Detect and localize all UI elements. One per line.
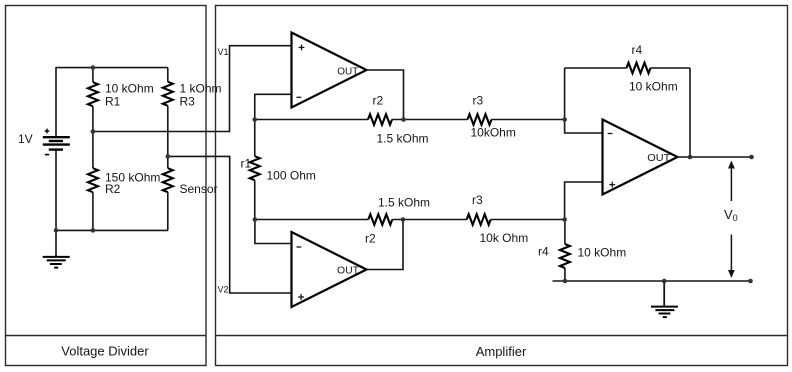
junction R2 bottom [91,228,96,233]
svg-text:r2: r2 [365,231,376,245]
ground (divider) [43,257,70,268]
wire node A vertical (r3 to U3 inverting) [565,68,603,133]
wire U2 inverting input [255,220,292,244]
wire top rail of divider [56,67,168,69]
svg-text:10 kOhm: 10 kOhm [578,245,627,259]
svg-text:Sensor: Sensor [180,182,218,196]
wire battery negative lead [55,150,57,231]
svg-text:10k Ohm: 10k Ohm [480,231,529,245]
wire R3 to Sensor [167,106,169,168]
svg-text:r4: r4 [538,244,549,258]
svg-text:r4: r4 [632,43,643,57]
wire ground rail [553,280,751,282]
wire U3 noninverting input to rail2 node [565,182,603,220]
svg-text:r3: r3 [472,193,483,207]
junction node A [562,117,567,122]
wire U3 output [678,156,752,158]
wire ground lead [55,230,57,257]
svg-text:OUT: OUT [337,67,358,78]
resistor Sensor [163,168,173,230]
wire U1 output to rail1 [367,70,404,120]
svg-text:10kOhm: 10kOhm [471,126,516,140]
wire U2 output to rail2 [367,220,404,270]
op-amp U3 (output) [603,120,678,195]
wire rail1 middle segment [392,119,468,121]
junction sensor node [166,154,171,159]
voltage divider box [6,6,207,366]
junction r4 bottom at ground rail [563,279,568,284]
wire bottom rail of divider [56,229,168,231]
wire battery positive lead [55,67,57,136]
svg-text:1.5 kOhm: 1.5 kOhm [378,195,430,209]
wire ground stub [663,281,665,306]
svg-text:Voltage Divider: Voltage Divider [61,344,149,359]
junction battery negative [54,228,59,233]
terminal ground rail end [748,279,753,284]
junction ground tap [662,279,667,284]
resistor r2 (bottom) [368,214,392,225]
svg-text:OUT: OUT [647,153,670,164]
svg-text:100 Ohm: 100 Ohm [267,169,316,183]
svg-text:10 kOhm: 10 kOhm [629,80,678,94]
wire node V1 (divider mid node to opamp U1 +) [93,46,292,132]
svg-text:Amplifier: Amplifier [476,344,527,359]
svg-text:r1: r1 [241,157,252,171]
wire U1 inverting input [255,94,292,119]
resistor r4 (to ground) [560,220,570,282]
svg-text:R1: R1 [105,95,121,109]
svg-text:r2: r2 [373,93,384,107]
junction node B [562,217,567,222]
battery minus mark [45,154,49,156]
wire node V2 (sensor node to opamp U2 +) [168,156,292,293]
annotation Vo arrow (up) [728,161,735,202]
svg-text:1 kOhm: 1 kOhm [180,81,222,95]
svg-text:OUT: OUT [337,265,359,276]
wire rail1 right segment [492,119,565,121]
resistor R2 [88,132,98,231]
resistor r2 (top) [368,114,392,125]
resistor R1 [88,68,98,132]
junction U1 output [401,117,406,122]
op-amp U1 (top) [292,33,367,108]
svg-text:V2: V2 [218,285,229,295]
battery plus mark [45,129,50,134]
resistor R3 [163,68,173,106]
op-amp U2 (bottom) [292,232,367,307]
annotation Vo arrow (down) [728,235,735,279]
svg-text:10 kOhm: 10 kOhm [105,81,154,95]
wire rail2 left segment [255,219,369,221]
junction R1/R2 mid node [91,129,96,134]
amplifier box [216,6,788,366]
svg-text:1V: 1V [18,132,33,146]
wire rail1 left segment [255,119,368,121]
junction rail2 left [253,217,258,222]
ground (amplifier) [651,307,678,318]
resistor r1 [250,120,260,220]
junction rail1 left [252,117,257,122]
terminal output [749,155,754,160]
resistor r3 (bottom) [467,214,491,225]
svg-text:V1: V1 [218,47,229,57]
junction U2 output [401,217,406,222]
battery V1 1V [43,137,70,149]
wire rail2 middle segment [392,219,466,221]
resistor r4 (feedback) [565,63,690,74]
wire r4 to output [689,68,691,157]
svg-text:R2: R2 [105,182,121,196]
junction R1 top [91,65,96,70]
svg-text:1.5 kOhm: 1.5 kOhm [377,132,429,146]
svg-text:R3: R3 [180,95,196,109]
svg-text:r3: r3 [473,93,484,107]
junction r4 feedback at output [688,155,693,160]
resistor r3 (top) [468,114,492,125]
wire rail2 right segment [491,219,565,221]
